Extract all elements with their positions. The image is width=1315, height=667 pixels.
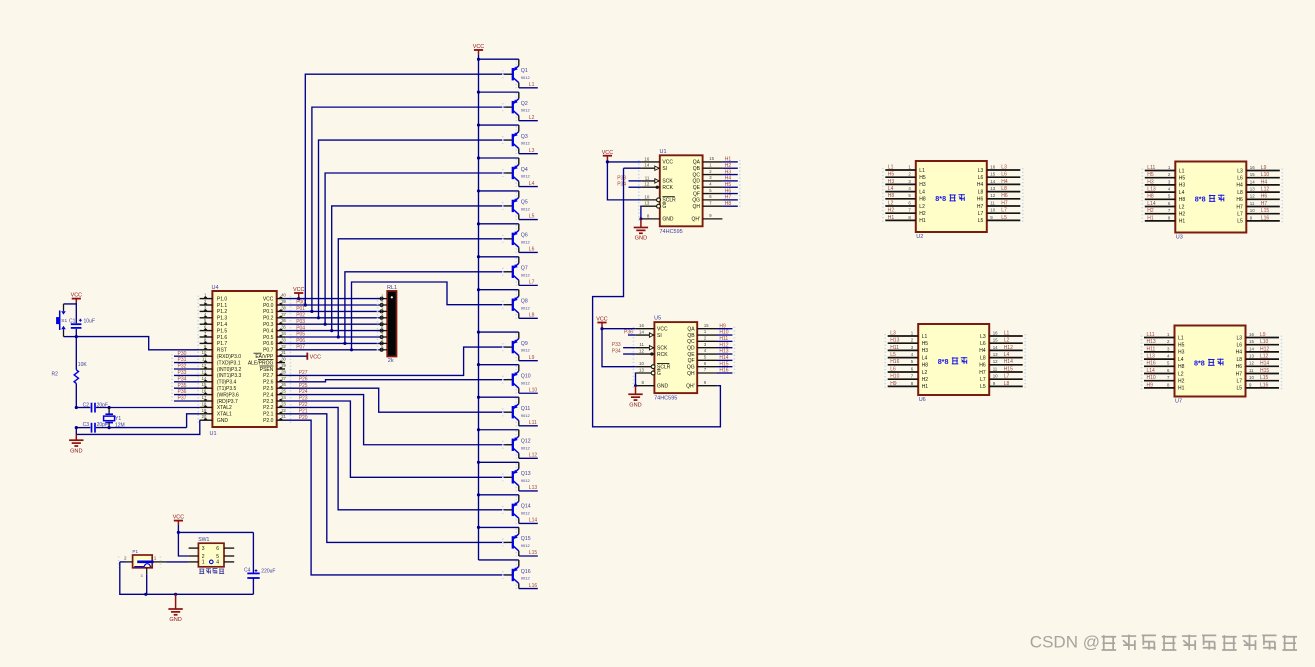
svg-text:P34: P34: [178, 376, 187, 382]
svg-text:9: 9: [704, 380, 707, 385]
transistor Q14 9012: [503, 495, 531, 524]
svg-text:10K: 10K: [78, 362, 88, 368]
svg-text:Q15: Q15: [521, 536, 531, 542]
crystal Y1 12M: [104, 406, 125, 429]
svg-text:29: 29: [281, 363, 286, 368]
svg-text:H4: H4: [725, 176, 732, 182]
wire C3 to XTAL1: [187, 414, 200, 428]
wires P0 bus mcu to RL1: [285, 299, 381, 350]
svg-text:L8: L8: [1001, 186, 1007, 192]
svg-text:8: 8: [1168, 215, 1171, 220]
svg-text:(T0)P3.4: (T0)P3.4: [217, 380, 237, 386]
svg-text:5: 5: [1168, 194, 1171, 199]
svg-text:L11: L11: [1147, 165, 1155, 171]
svg-text:L5: L5: [1001, 215, 1007, 221]
svg-text:H3: H3: [1178, 350, 1185, 356]
svg-text:L6: L6: [1001, 172, 1007, 178]
label U6 title 8*8 dot matrix: [938, 357, 968, 366]
svg-text:11: 11: [993, 366, 998, 371]
wire emitter rail tap Q7: [477, 255, 519, 258]
svg-text:VCC: VCC: [71, 292, 82, 298]
label U3 title 8*8 dot matrix: [1195, 195, 1225, 204]
wire collector Q1 with net label L1: [519, 82, 538, 88]
transistor Q4 9012: [503, 158, 531, 187]
svg-text:L3: L3: [529, 148, 535, 154]
svg-text:H4: H4: [1236, 183, 1243, 189]
wire G tie to GND (U1): [639, 206, 642, 220]
svg-text:VCC: VCC: [173, 514, 184, 520]
svg-text:H4: H4: [977, 182, 984, 188]
svg-text:H6: H6: [1261, 194, 1268, 200]
svg-text:QC: QC: [687, 339, 695, 345]
svg-text:GND: GND: [657, 383, 669, 389]
svg-text:H2: H2: [919, 211, 926, 217]
svg-text:2: 2: [911, 338, 914, 343]
svg-text:11: 11: [202, 357, 207, 362]
transistor Q10 9012: [503, 365, 531, 394]
svg-text:9: 9: [990, 215, 993, 220]
svg-text:L10: L10: [1260, 339, 1269, 345]
svg-text:C1: C1: [69, 319, 76, 325]
wire cascade loop U5 QH' to U1 SI: [593, 168, 721, 427]
svg-text:SCK: SCK: [662, 179, 673, 185]
svg-text:L2: L2: [922, 370, 928, 376]
svg-text:H8: H8: [1178, 364, 1185, 370]
ground GND (switch section): [175, 594, 177, 609]
svg-text:H11: H11: [890, 345, 899, 351]
svg-text:H2: H2: [888, 208, 895, 214]
wire emitter rail tap Q14: [477, 493, 519, 496]
svg-text:2: 2: [124, 555, 127, 560]
svg-text:12: 12: [202, 363, 207, 368]
svg-text:2: 2: [1168, 172, 1171, 177]
svg-text:Q13: Q13: [521, 471, 531, 477]
svg-text:L15: L15: [1261, 208, 1270, 214]
svg-text:28: 28: [281, 369, 286, 374]
resistor network RL1 2k: [378, 285, 398, 364]
svg-text:74HC595: 74HC595: [660, 229, 683, 235]
svg-text:13: 13: [644, 201, 649, 206]
svg-text:38: 38: [281, 305, 286, 310]
svg-text:9: 9: [1249, 382, 1252, 387]
svg-text:4: 4: [1168, 187, 1171, 192]
svg-text:RL1: RL1: [387, 285, 397, 291]
svg-text:H2: H2: [922, 377, 929, 383]
wire collector Q10 with net label L10: [519, 387, 538, 393]
svg-text:7: 7: [1167, 375, 1170, 380]
svg-text:6: 6: [1167, 368, 1170, 373]
svg-text:QG: QG: [687, 364, 695, 370]
svg-text:10: 10: [1249, 375, 1254, 380]
svg-text:QH: QH: [693, 204, 701, 210]
wire VCC to S1/C1 top: [64, 303, 77, 304]
svg-text:P04: P04: [296, 325, 305, 331]
svg-text:13: 13: [993, 352, 998, 357]
label U7 title 8*8 dot matrix: [1194, 359, 1224, 368]
svg-text:H9: H9: [1147, 382, 1154, 388]
svg-text:VCC: VCC: [293, 287, 304, 293]
svg-text:L8: L8: [980, 355, 986, 361]
svg-text:L9: L9: [1261, 165, 1267, 171]
svg-text:15: 15: [704, 323, 709, 328]
svg-text:(TXD)P3.1: (TXD)P3.1: [217, 360, 241, 366]
svg-text:15: 15: [1249, 339, 1254, 344]
wire emitter rail tap Q4: [477, 156, 519, 159]
svg-text:H8: H8: [1179, 197, 1186, 203]
svg-text:L16: L16: [1260, 382, 1269, 388]
svg-text:12: 12: [993, 359, 998, 364]
svg-text:S1: S1: [61, 318, 67, 324]
svg-text:H1: H1: [919, 218, 926, 224]
svg-text:QF: QF: [693, 191, 700, 197]
svg-text:H11: H11: [1147, 346, 1156, 352]
svg-text:H15: H15: [1260, 368, 1269, 374]
svg-text:15: 15: [1250, 172, 1255, 177]
svg-text:L10: L10: [1261, 172, 1270, 178]
svg-text:L1: L1: [1178, 335, 1184, 341]
svg-text:10: 10: [993, 374, 998, 379]
svg-text:P1.0: P1.0: [217, 296, 228, 302]
svg-text:H7: H7: [725, 195, 732, 201]
svg-text:74HC595: 74HC595: [654, 396, 677, 402]
wire emitter rail tap Q6: [477, 222, 519, 225]
svg-text:VCC: VCC: [263, 296, 274, 302]
wire collector Q4 with net label L4: [519, 181, 538, 187]
svg-text:P2.7: P2.7: [263, 373, 274, 379]
wire U1 SI from cascade loop: [624, 167, 642, 169]
transistor Q9 9012: [503, 332, 531, 361]
svg-text:11: 11: [639, 342, 644, 347]
svg-text:H10: H10: [719, 330, 728, 336]
svg-text:H1: H1: [922, 384, 929, 390]
svg-text:QH: QH: [687, 371, 695, 377]
svg-text:2: 2: [704, 336, 707, 341]
svg-text:Q9: Q9: [521, 341, 528, 347]
svg-text:Q6: Q6: [521, 233, 528, 239]
svg-text:H5: H5: [1147, 172, 1154, 178]
wire emitter rail tap Q15: [477, 526, 519, 529]
svg-text:Q14: Q14: [521, 504, 531, 510]
svg-text:(RD)P3.7: (RD)P3.7: [217, 399, 238, 405]
svg-text:12: 12: [990, 193, 995, 198]
svg-text:14: 14: [639, 330, 644, 335]
svg-text:H2: H2: [1147, 208, 1154, 214]
svg-text:H9: H9: [719, 323, 726, 329]
svg-text:8: 8: [1167, 382, 1170, 387]
wire emitter rail tap Q5: [477, 189, 519, 192]
svg-text:L4: L4: [888, 186, 894, 192]
switch SW1 (power switch): [189, 537, 235, 567]
svg-text:L9: L9: [529, 355, 535, 361]
mcu U4 right pins 40-21: [248, 293, 291, 424]
svg-text:L11: L11: [1147, 332, 1155, 338]
svg-text:P07: P07: [296, 345, 305, 351]
svg-text:6: 6: [204, 325, 207, 330]
svg-text:9012: 9012: [521, 576, 531, 581]
svg-text:P2.2: P2.2: [263, 405, 274, 411]
svg-text:U5: U5: [654, 316, 661, 322]
svg-text:H12: H12: [719, 342, 728, 348]
svg-text:H16: H16: [890, 359, 899, 365]
svg-text:H14: H14: [1004, 359, 1013, 365]
svg-text:QH': QH': [692, 217, 701, 223]
svg-text:L5: L5: [980, 384, 986, 390]
svg-text:13: 13: [202, 369, 207, 374]
svg-text:QD: QD: [693, 179, 701, 185]
svg-text:Q3: Q3: [521, 134, 528, 140]
wire emitter rail tap Q16: [479, 559, 519, 561]
svg-text:L13: L13: [1147, 354, 1156, 360]
mcu P3 net label stubs P30-P37: [172, 351, 200, 403]
svg-text:L2: L2: [1178, 371, 1184, 377]
svg-text:L2: L2: [1004, 338, 1010, 344]
svg-text:SCK: SCK: [657, 345, 668, 351]
wire ground rail (switch section): [120, 562, 254, 596]
wire collector Q12 with net label L12: [519, 453, 538, 459]
svg-text:9012: 9012: [521, 445, 531, 450]
svg-text:P01: P01: [296, 306, 305, 312]
svg-text:U1: U1: [210, 431, 217, 437]
svg-text:L4: L4: [919, 189, 925, 195]
svg-text:P0.4: P0.4: [263, 328, 274, 334]
svg-text:Q11: Q11: [521, 406, 531, 412]
svg-text:9012: 9012: [521, 174, 531, 179]
svg-text:14: 14: [644, 163, 649, 168]
svg-text:H6: H6: [1001, 193, 1008, 199]
svg-text:H15: H15: [719, 361, 728, 367]
svg-text:13: 13: [990, 186, 995, 191]
wire emitter rail tap Q11: [477, 396, 519, 399]
svg-text:L4: L4: [1004, 352, 1010, 358]
wire emitter rail tap Q8: [477, 288, 519, 291]
svg-text:H16: H16: [1147, 361, 1156, 367]
net labels P27-P20 and wires to Q9-Q16 bases: [285, 347, 506, 575]
svg-text:10uF: 10uF: [84, 319, 95, 325]
svg-text:H1: H1: [725, 157, 732, 163]
wire collector Q5 with net label L5: [519, 214, 538, 220]
net labels SCK RCK (U5): [612, 342, 636, 354]
svg-text:3: 3: [204, 305, 207, 310]
svg-text:P0.6: P0.6: [263, 341, 274, 347]
svg-text:QD: QD: [687, 345, 695, 351]
svg-text:P1.3: P1.3: [217, 316, 228, 322]
svg-text:14: 14: [202, 376, 207, 381]
svg-text:10: 10: [202, 350, 207, 355]
wire collector Q13 with net label L13: [519, 485, 538, 491]
svg-text:3: 3: [908, 179, 911, 184]
svg-text:7: 7: [704, 367, 707, 372]
watermark CSDN: [1030, 633, 1100, 652]
svg-text:VCC: VCC: [310, 354, 321, 360]
svg-text:31: 31: [281, 350, 286, 355]
svg-text:3: 3: [1167, 346, 1170, 351]
svg-text:P35: P35: [178, 383, 187, 389]
svg-text:H15: H15: [1004, 366, 1013, 372]
wire collector Q9 with net label L9: [519, 355, 538, 361]
svg-text:15: 15: [990, 172, 995, 177]
svg-text:8*8: 8*8: [935, 194, 946, 203]
pushbutton S1: [57, 304, 68, 337]
wire emitter rail tap Q13: [477, 461, 519, 464]
svg-text:G: G: [662, 204, 666, 210]
svg-text:EA/VPP: EA/VPP: [255, 354, 274, 360]
svg-text:P0.2: P0.2: [263, 316, 274, 322]
svg-text:G: G: [657, 371, 661, 377]
svg-text:L6: L6: [529, 247, 535, 253]
svg-text:L5: L5: [1237, 219, 1243, 225]
svg-text:L4: L4: [922, 355, 928, 361]
node reset junction: [75, 335, 78, 338]
svg-text:QA: QA: [687, 327, 695, 333]
svg-text:9012: 9012: [521, 272, 531, 277]
svg-text:10: 10: [990, 208, 995, 213]
wire S1 bottom to node: [64, 336, 77, 338]
svg-text:H3: H3: [725, 169, 732, 175]
svg-text:H7: H7: [979, 370, 986, 376]
svg-text:QB: QB: [693, 166, 701, 172]
svg-text:P0.5: P0.5: [263, 335, 274, 341]
svg-text:QF: QF: [688, 358, 695, 364]
svg-text:H6: H6: [1236, 197, 1243, 203]
svg-text:9: 9: [993, 381, 996, 386]
svg-text:2: 2: [908, 172, 911, 177]
svg-text:L5: L5: [978, 218, 984, 224]
svg-text:H4: H4: [1236, 350, 1243, 356]
svg-text:L14: L14: [1147, 201, 1156, 207]
svg-text:GND: GND: [629, 402, 641, 408]
svg-text:1: 1: [1168, 165, 1171, 170]
svg-text:H1: H1: [1179, 219, 1186, 225]
wire collector Q14 with net label L14: [519, 518, 538, 524]
wire node to RST pin: [76, 337, 199, 350]
svg-text:8: 8: [381, 338, 384, 343]
svg-text:35: 35: [281, 325, 286, 330]
svg-text:QH': QH': [686, 383, 695, 389]
svg-text:14: 14: [1250, 179, 1255, 184]
wire emitter rail tap Q10: [477, 363, 519, 366]
pins U6 right 16-9: [979, 330, 1025, 390]
svg-text:U4: U4: [212, 285, 219, 291]
svg-text:L5: L5: [1236, 386, 1242, 392]
svg-text:9: 9: [1250, 215, 1253, 220]
svg-text:8: 8: [911, 381, 914, 386]
svg-text:L13: L13: [529, 485, 538, 491]
svg-text:P36: P36: [178, 389, 187, 395]
svg-text:L5: L5: [529, 214, 535, 220]
svg-text:L3: L3: [980, 334, 986, 340]
svg-text:L2: L2: [1179, 204, 1185, 210]
svg-text:23: 23: [281, 401, 286, 406]
svg-text:L14: L14: [1147, 368, 1156, 374]
svg-text:L6: L6: [980, 341, 986, 347]
svg-text:Q5: Q5: [521, 200, 528, 206]
svg-text:6: 6: [709, 194, 712, 199]
svg-text:L3: L3: [978, 168, 984, 174]
wire collector Q2 with net label L2: [519, 115, 538, 121]
svg-text:8*8: 8*8: [1194, 359, 1205, 368]
svg-text:GND: GND: [635, 236, 647, 242]
svg-text:H14: H14: [1260, 361, 1269, 367]
svg-text:L4: L4: [1179, 190, 1185, 196]
svg-text:P37: P37: [178, 396, 187, 402]
svg-text:RST: RST: [217, 348, 227, 354]
svg-text:P1.2: P1.2: [217, 309, 228, 315]
svg-text:16: 16: [202, 389, 207, 394]
ground GND (mcu left): [75, 434, 77, 440]
svg-text:4: 4: [704, 348, 707, 353]
svg-text:4: 4: [216, 560, 219, 566]
svg-text:L12: L12: [529, 453, 538, 459]
svg-text:L7: L7: [1237, 212, 1243, 218]
ground GND (U5): [635, 386, 637, 395]
pins U7 right 16-9: [1236, 332, 1282, 392]
svg-text:VCC: VCC: [473, 44, 484, 50]
svg-text:5: 5: [704, 355, 707, 360]
svg-text:H7: H7: [977, 204, 984, 210]
svg-text:L16: L16: [1261, 215, 1270, 221]
svg-text:H8: H8: [922, 363, 929, 369]
svg-text:1: 1: [911, 330, 914, 335]
svg-text:L7: L7: [529, 280, 535, 286]
svg-text:24: 24: [281, 395, 286, 400]
svg-text:H1: H1: [1178, 386, 1185, 392]
svg-text:11: 11: [1249, 368, 1254, 373]
svg-text:10: 10: [644, 194, 649, 199]
power VCC (U5): [596, 317, 607, 329]
svg-text:C3: C3: [83, 422, 90, 428]
svg-text:RCK: RCK: [657, 352, 668, 358]
svg-text:L8: L8: [529, 313, 535, 319]
svg-text:L7: L7: [980, 377, 986, 383]
svg-text:QC: QC: [693, 172, 701, 178]
svg-text:H6: H6: [979, 363, 986, 369]
svg-text:2: 2: [381, 300, 384, 305]
svg-text:L1: L1: [919, 168, 925, 174]
svg-text:L12: L12: [1261, 187, 1270, 193]
svg-text:3: 3: [1168, 179, 1171, 184]
svg-text:7: 7: [911, 374, 914, 379]
svg-text:12: 12: [644, 182, 649, 187]
pins U6 left 1-8: [885, 330, 928, 390]
wire G tie to GND (U5): [634, 373, 637, 387]
svg-text:SW1: SW1: [198, 537, 209, 543]
svg-text:7: 7: [709, 200, 712, 205]
svg-text:P1.4: P1.4: [217, 322, 228, 328]
pins U5 left: [633, 323, 670, 389]
svg-text:L8: L8: [1236, 357, 1242, 363]
wire VCC to pin16 and SCLR tie (U1): [606, 160, 641, 200]
svg-text:Q7: Q7: [521, 266, 528, 272]
svg-text:H5: H5: [919, 175, 926, 181]
svg-text:U2: U2: [916, 234, 923, 240]
svg-text:L8: L8: [1004, 381, 1010, 387]
svg-text:H1: H1: [1147, 215, 1154, 221]
svg-text:L7: L7: [978, 211, 984, 217]
svg-text:H8: H8: [888, 193, 895, 199]
svg-text:15: 15: [709, 156, 714, 161]
svg-text:(WR)P3.6: (WR)P3.6: [217, 392, 239, 398]
svg-text:25: 25: [281, 389, 286, 394]
svg-text:3: 3: [911, 345, 914, 350]
net labels P00-P07: [296, 300, 305, 351]
svg-text:VCC: VCC: [662, 160, 673, 166]
svg-text:GND: GND: [662, 217, 674, 223]
svg-text:Y1: Y1: [115, 416, 121, 422]
svg-text:9012: 9012: [521, 305, 531, 310]
pins U2 left 1-8: [883, 164, 926, 224]
net label P36 wire (U5 SI): [624, 330, 636, 336]
svg-text:P32: P32: [178, 364, 187, 370]
